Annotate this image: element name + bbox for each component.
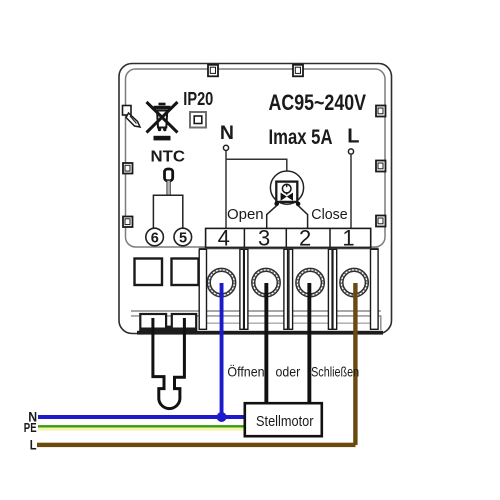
svg-text:IP20: IP20 bbox=[183, 89, 213, 109]
svg-text:2: 2 bbox=[299, 225, 311, 250]
svg-text:4: 4 bbox=[218, 225, 230, 250]
svg-text:L: L bbox=[30, 436, 37, 452]
svg-text:Close: Close bbox=[311, 206, 347, 223]
svg-text:6: 6 bbox=[151, 230, 159, 246]
svg-text:NTC: NTC bbox=[151, 149, 186, 166]
svg-text:oder: oder bbox=[276, 364, 301, 380]
svg-text:Stellmotor: Stellmotor bbox=[256, 413, 314, 430]
svg-text:N: N bbox=[220, 122, 234, 144]
svg-text:L: L bbox=[347, 126, 359, 148]
svg-text:Öffnen: Öffnen bbox=[227, 363, 264, 380]
svg-text:3: 3 bbox=[258, 225, 270, 250]
svg-text:Open: Open bbox=[227, 206, 264, 223]
svg-text:1: 1 bbox=[342, 225, 354, 250]
svg-text:PE: PE bbox=[24, 421, 37, 435]
svg-text:Imax 5A: Imax 5A bbox=[269, 126, 333, 149]
svg-text:5: 5 bbox=[179, 230, 187, 246]
svg-text:AC95~240V: AC95~240V bbox=[269, 90, 367, 115]
svg-text:Schließen: Schließen bbox=[311, 364, 359, 380]
